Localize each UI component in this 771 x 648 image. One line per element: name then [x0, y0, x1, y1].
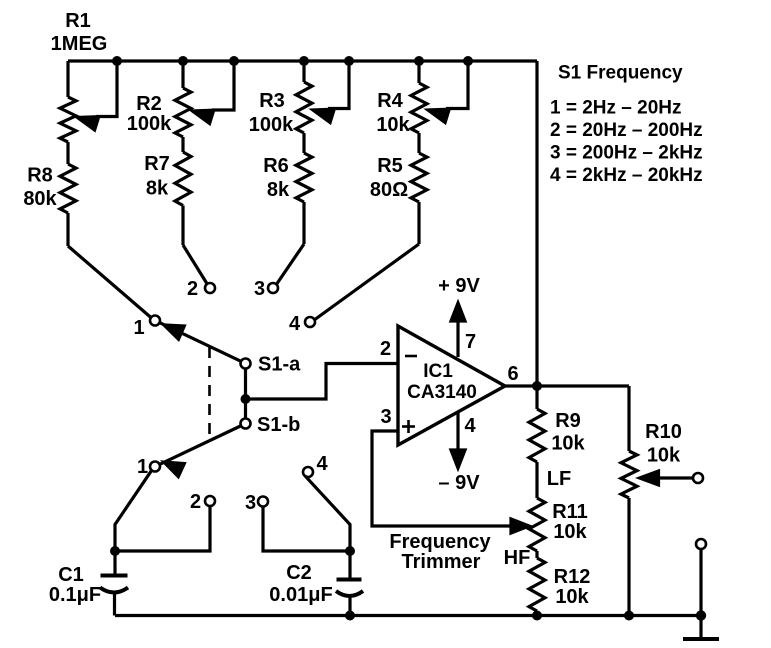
svg-text:1: 1: [133, 317, 144, 339]
svg-text:CA3140: CA3140: [407, 382, 477, 403]
svg-text:R11: R11: [552, 501, 588, 523]
svg-text:2: 2: [187, 278, 198, 300]
wire S1-b contact 1 to C1: [115, 470, 152, 551]
switch S1-b contact 4: [303, 467, 313, 477]
node pin 6 output: [532, 381, 542, 391]
node C1 top: [110, 546, 120, 556]
svg-text:4: 4: [464, 415, 476, 437]
svg-text:3: 3: [380, 406, 391, 428]
svg-text:R3: R3: [259, 90, 285, 112]
resistor R7: [175, 137, 191, 245]
switch S1-a wiper arm: [160, 323, 242, 362]
resistor R6: [296, 133, 312, 244]
wire IC1 pin 6 output: [505, 384, 629, 387]
svg-text:+ 9V: + 9V: [438, 275, 480, 297]
terminal R10 wiper output: [693, 473, 703, 483]
node rail G: [463, 56, 473, 66]
wire R11 to R12 node HF: [535, 551, 538, 558]
node S1 common junction: [241, 394, 251, 404]
svg-text:R6: R6: [263, 155, 289, 177]
switch S1-a contact 3: [268, 283, 278, 293]
node rail B: [178, 56, 188, 66]
svg-text:4: 4: [316, 453, 328, 475]
wire S1-b contact 2 down: [115, 506, 210, 551]
svg-text:S1-b: S1-b: [257, 414, 300, 436]
node rail D: [299, 56, 309, 66]
potentiometer R3: [296, 61, 349, 133]
wire IC1 pin 3 to frequency trimmer R11: [372, 431, 529, 533]
switch S1-a contact 1: [150, 316, 160, 326]
svg-text:4: 4: [289, 313, 301, 335]
svg-text:1MEG: 1MEG: [51, 33, 108, 55]
node rail C: [229, 56, 239, 66]
svg-text:2 = 20Hz – 200Hz: 2 = 20Hz – 200Hz: [550, 120, 703, 141]
svg-text:3: 3: [245, 492, 256, 514]
potentiometer R4: [411, 61, 468, 133]
wire R7 to S1-a contact 2: [183, 245, 208, 285]
svg-text:10k: 10k: [376, 114, 410, 136]
svg-text:R2: R2: [136, 93, 162, 115]
op-amp U1 IC1 CA3140: [398, 326, 505, 445]
switch S1-b contact 3: [258, 497, 268, 507]
ground symbol: [683, 616, 719, 640]
wire IC1 pin 4 supply: [451, 412, 465, 468]
svg-text:6: 6: [507, 363, 518, 385]
svg-text:R9: R9: [555, 410, 581, 432]
svg-text:R12: R12: [554, 566, 591, 588]
svg-text:80k: 80k: [23, 188, 57, 210]
svg-text:0.1μF: 0.1μF: [49, 584, 101, 606]
svg-text:S1 Frequency: S1 Frequency: [558, 63, 683, 84]
svg-text:R5: R5: [377, 155, 403, 177]
svg-text:HF: HF: [504, 547, 531, 569]
svg-text:R7: R7: [144, 153, 170, 175]
svg-text:IC1: IC1: [423, 361, 453, 382]
resistor R8: [60, 142, 76, 246]
svg-text:C2: C2: [286, 562, 312, 584]
capacitor C2: [336, 551, 363, 616]
switch S1-b contact 1: [150, 462, 160, 472]
svg-text:C1: C1: [58, 564, 84, 586]
terminal output lower: [696, 539, 706, 549]
node bottom C2: [345, 611, 355, 621]
svg-text:2: 2: [380, 338, 391, 360]
wire top rail: [68, 59, 537, 62]
capacitor C1: [100, 551, 128, 616]
svg-text:1: 1: [137, 456, 148, 478]
wire R9 to R11 node LF: [535, 462, 538, 498]
svg-text:R8: R8: [27, 165, 53, 187]
node rail F: [414, 56, 424, 66]
svg-text:1 = 2Hz – 20Hz: 1 = 2Hz – 20Hz: [550, 98, 682, 119]
wire S1-b contact 4 to C2: [305, 476, 350, 551]
svg-text:10k: 10k: [553, 521, 587, 543]
svg-text:8k: 8k: [146, 178, 169, 200]
svg-text:10k: 10k: [647, 445, 681, 467]
svg-text:3: 3: [254, 278, 265, 300]
gang coupling dashed line S1: [208, 347, 211, 440]
wire R5 to S1-a contact 4: [314, 244, 420, 321]
svg-text:Trimmer: Trimmer: [402, 551, 481, 573]
svg-text:10k: 10k: [555, 586, 589, 608]
switch S1-b common pole: [241, 419, 251, 429]
node rail E: [344, 56, 354, 66]
svg-text:100k: 100k: [127, 113, 172, 135]
potentiometer R1: [60, 61, 117, 142]
svg-text:2: 2: [190, 491, 201, 513]
node bottom ground: [696, 610, 706, 620]
svg-text:4 = 2kHz – 20kHz: 4 = 2kHz – 20kHz: [550, 165, 703, 186]
svg-text:80Ω: 80Ω: [370, 179, 408, 201]
switch S1-b wiper arm: [160, 426, 242, 477]
switch S1-a common pole: [241, 359, 251, 369]
node C2 top: [345, 546, 355, 556]
switch S1-b contact 2: [205, 496, 215, 506]
svg-text:3 = 200Hz – 2kHz: 3 = 200Hz – 2kHz: [550, 143, 703, 164]
wire R6 to S1-a contact 3: [276, 244, 304, 285]
wire IC1 pin 7 supply: [451, 303, 465, 357]
wire lower terminal to ground rail: [699, 549, 702, 616]
svg-text:8k: 8k: [267, 179, 290, 201]
wire S1-b contact 3 down: [263, 507, 350, 552]
svg-text:– 9V: – 9V: [438, 472, 480, 494]
node bottom R12: [532, 611, 542, 621]
svg-text:7: 7: [465, 331, 476, 353]
resistor R5: [411, 133, 427, 244]
wire S1-a common to S1-b common: [244, 368, 247, 419]
switch S1-a contact 4: [305, 317, 315, 327]
svg-text:R10: R10: [645, 421, 682, 443]
wire S1 common to IC1 pin 2: [246, 364, 399, 400]
node rail A: [112, 56, 122, 66]
potentiometer R2: [175, 61, 234, 137]
wire bottom ground rail: [115, 614, 701, 617]
resistor R9: [529, 386, 545, 462]
svg-text:0.01μF: 0.01μF: [269, 584, 332, 606]
svg-text:S1-a: S1-a: [258, 354, 301, 376]
svg-text:R1: R1: [65, 10, 91, 32]
svg-text:Frequency: Frequency: [389, 531, 491, 553]
svg-text:100k: 100k: [249, 114, 294, 136]
svg-text:LF: LF: [547, 468, 571, 490]
wire right vertical from rail to pin 6 node: [535, 61, 538, 386]
switch S1-a contact 2: [205, 283, 215, 293]
svg-text:10k: 10k: [551, 433, 585, 455]
potentiometer R10: [621, 386, 694, 616]
trimmer R11: [529, 498, 545, 551]
node bottom R10: [624, 611, 634, 621]
svg-text:R4: R4: [377, 90, 403, 112]
wire R8 to S1-a contact 1: [68, 246, 152, 318]
resistor R12: [529, 558, 545, 616]
